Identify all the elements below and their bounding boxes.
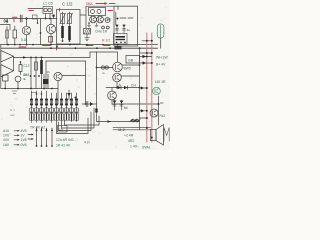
node osc [117,18,119,20]
amplifier A2 triangle [1,65,14,78]
transistor T4 [46,24,55,33]
red dash on line A left [19,46,26,48]
capacitor C15 green [157,24,164,38]
tuning cap CV1 [62,12,64,41]
blob below OSC box [115,46,122,49]
node [75,97,77,99]
wire batt top [142,40,152,42]
transistor T11 [150,109,158,117]
red tick box1 [59,8,61,11]
transformer L1 [43,7,53,14]
transistor T7 [113,62,123,72]
shield box T6 left [45,61,47,89]
resistor R3 [49,37,53,43]
red arrow top [96,3,106,5]
wire drop x48 [47,74,49,89]
probe lines [37,128,53,146]
red tick [56,46,58,50]
wire T8 emitter down [116,82,118,88]
node bus dots [30,75,32,77]
cap C14 [120,100,123,110]
transistor T8 [113,73,122,82]
link line under circles [29,112,79,114]
resistor R2 [13,30,17,38]
ground G1 [88,23,91,27]
cap C7 [115,25,118,34]
arrow on signal [23,56,27,58]
wire drop x31 [30,57,32,88]
wire section line A [0,44,158,46]
transistor T3 [22,26,30,34]
pin stubs to bundle [57,120,77,133]
node J1 [25,17,27,19]
switch marks [32,115,77,120]
node dots on section lines [50,47,52,49]
wire T9 down [111,100,113,104]
pin stubs below boxes [32,120,52,122]
wire corner [0,25,10,31]
transformer TR1 hatched [84,29,91,35]
red rail 2 [151,33,153,142]
red rail 1 [146,33,148,142]
diode D4 [124,86,128,89]
wire box1 to T1 [80,14,86,16]
wire tri join [13,56,15,70]
switch contacts S1 [120,17,133,19]
coil core bar 2 [68,26,71,40]
resistor R4 [19,65,22,72]
wire T3 top lead [26,19,28,27]
wire T4 top lead [50,19,52,25]
red mark L1 [29,10,34,12]
shield box OSC [114,6,138,46]
wire C15 down [160,38,162,48]
shield box IF1 [57,10,81,45]
tick below R0 [37,19,39,24]
diode D3 [118,86,122,89]
diode D5 [140,56,152,58]
marks near box1 входа [53,15,55,19]
label box P1 [58,126,68,133]
wire bus [1,88,58,90]
wire rail top tap [140,52,152,54]
diode D8 blob [90,102,93,106]
transistor T1 [90,16,97,23]
wire T8 collector [121,75,140,77]
transformer TR2 [3,75,9,81]
diode D6 [140,62,152,64]
speaker coil mark [164,128,169,142]
node L1 pins [45,18,47,20]
wire osc inner [115,12,117,25]
wire top bus [86,5,138,7]
diode pack D1 box [89,8,106,16]
wire T9 base [111,88,113,92]
wire drop x40 [40,19,42,45]
wire signal main [14,56,91,58]
resistor R5 [35,57,37,88]
wire step top [90,51,118,53]
red dash on line A right [86,45,93,47]
wire antenna lead [28,8,43,10]
shield box T6 top [46,60,86,62]
wire top-left input line [0,18,57,20]
trimmer T2a [105,18,110,23]
bundle wire W4 [97,52,140,122]
red dash on line A mid [43,45,51,47]
trimmer circle row [29,108,34,113]
wire T6 down [57,81,59,104]
speaker LS1 [151,130,157,141]
wire section line B [1,47,158,49]
capacitor C11 electrolytic [43,79,49,84]
node osc2 [116,42,118,44]
marks below bus [12,91,17,94]
wire tap y118 [140,117,147,119]
wire T7 top [117,52,119,62]
wire T7 collector [122,64,140,66]
shield box T6 right [85,61,87,104]
cap C13 [113,100,116,110]
transistor T5 [15,76,21,82]
wire T7 base [97,67,113,69]
corner stubs below bus [32,92,37,94]
diode D7 [140,110,147,112]
resistor caps [30,99,32,101]
wire right mid vertical [158,96,160,125]
resistor R0 on input [33,15,38,19]
node box1 [62,40,64,42]
wire drop x86 [85,6,87,28]
scribble knot [130,120,140,122]
arrow head [108,120,112,122]
wire out left y104 [82,103,97,105]
transistor T10 green [153,87,161,95]
node W4 blob [95,109,97,113]
inner box OSC coil [114,34,128,45]
transistor T6 [54,72,62,80]
red dash top right [108,10,113,12]
trimmer pair [101,66,104,69]
switch bank verticals [32,91,77,114]
speaker wires [113,127,151,130]
ground G2 [95,23,98,27]
resistor R1 [6,27,8,45]
bundle wire W6 [65,116,100,125]
wire det line [106,87,140,89]
wire red mark on input [13,16,18,18]
right bus vertical [139,48,141,130]
diode D9 [140,87,147,89]
transistor T2 [97,16,104,23]
wire left edge [0,45,2,89]
capacitor C16 on out wire [86,102,88,107]
tick marks below input [7,19,14,23]
switch box row [30,114,34,120]
coil core bar 1 [61,26,64,38]
test arrows [28,135,33,140]
capacitor C10 electrolytic [41,57,43,88]
amplifier A1 triangle [1,51,14,63]
cap C8 [122,25,125,34]
bundle wire W2 [59,112,92,131]
diode D2 [68,90,70,100]
bundle wire W1 [57,118,89,134]
socket dots [102,26,105,29]
box GB [126,56,140,64]
wire step riser [89,52,91,57]
transistor T9 [108,91,117,100]
wire out to right [112,103,158,105]
node red rail dots [146,127,148,129]
wire drop x44 [43,74,45,89]
bundle wire W3 [62,108,95,128]
ground G3 [85,34,89,41]
resistor row [30,99,32,105]
scan noise [0,1,169,149]
wire T6 right [62,75,86,77]
capacitor C1 [20,15,22,22]
tuning cap CV2 [69,12,71,41]
